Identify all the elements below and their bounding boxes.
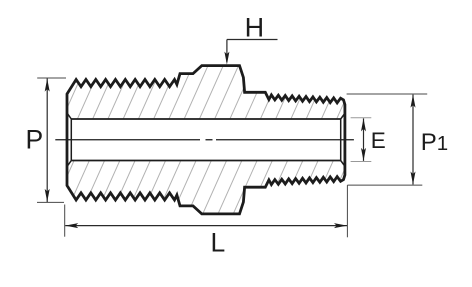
E arrow up — [361, 118, 366, 131]
P1 arrow down — [411, 172, 416, 185]
L arrow left — [65, 223, 78, 228]
dimension P1 extension lines — [347, 94, 428, 185]
fitting body outline — [67, 66, 345, 214]
P arrow down — [45, 189, 50, 202]
svg-text:H: H — [245, 13, 265, 43]
centerline — [55, 139, 354, 141]
dimension L line — [65, 225, 347, 227]
P1 arrow up — [411, 95, 416, 108]
dimension P line — [46, 79, 48, 203]
dimension L extension lines — [65, 185, 348, 237]
svg-text:L: L — [211, 227, 226, 257]
dimension E extension lines — [351, 118, 372, 162]
body fill — [67, 66, 345, 214]
section hatching — [1, 58, 425, 222]
dimension P1 line — [412, 95, 414, 185]
right bore chamfer — [341, 113, 345, 167]
P arrow up — [45, 79, 50, 92]
dimension H leader — [227, 40, 278, 63]
E arrow down — [361, 148, 366, 161]
svg-text:E: E — [371, 128, 386, 153]
left bore chamfer — [67, 113, 71, 167]
L arrow right — [334, 223, 347, 228]
dimension E line — [363, 118, 365, 160]
svg-text:P: P — [26, 124, 44, 154]
svg-text:P1: P1 — [421, 129, 448, 156]
dimension P extension lines — [37, 78, 66, 202]
bore bottom line — [71, 160, 340, 162]
H arrow down — [224, 52, 229, 65]
bore top line — [71, 118, 340, 120]
